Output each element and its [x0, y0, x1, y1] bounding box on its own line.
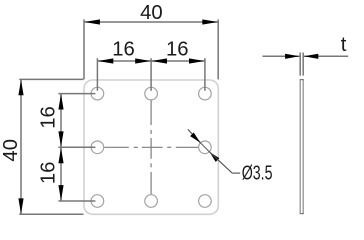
horizontal centerline — [104, 146, 198, 148]
dim top 16 right: left arrow — [152, 58, 168, 63]
dim t: right arrow — [304, 54, 319, 59]
side view plate: right face line — [302, 80, 304, 214]
dim top 16 left: left extension line — [96, 58, 98, 91]
dim top 16 left: left arrow — [98, 58, 114, 63]
dim t: left line — [263, 55, 300, 57]
hole bottom-right — [199, 195, 212, 208]
dim left 40: bottom extension line — [19, 213, 83, 215]
hole top-middle — [145, 87, 158, 100]
leader dia 3.5: upper arrow — [190, 133, 200, 143]
dim left 16/16: dimension line — [60, 94, 62, 201]
svg-text:Ø3.5: Ø3.5 — [242, 161, 273, 184]
dim t: right extension line — [302, 53, 304, 76]
dim t: left extension line — [299, 53, 301, 76]
dim top 40: left arrow — [84, 19, 100, 24]
svg-text:40: 40 — [0, 139, 22, 162]
side view plate: top edge — [300, 79, 304, 81]
dim left 16 bottom: bottom arrow — [58, 185, 63, 201]
dim top 40: right arrow — [202, 19, 218, 24]
leader dia 3.5: line through hole — [200, 143, 209, 152]
dim top 16: middle extension line — [150, 58, 152, 91]
svg-text:t: t — [341, 34, 347, 56]
side view plate: left face line — [299, 80, 301, 214]
side view plate: bottom edge — [300, 213, 304, 215]
dim top 16/16: dimension line — [97, 60, 204, 62]
dim top 40: left extension line — [83, 19, 85, 79]
dim left 16 top: top arrow — [58, 94, 63, 110]
dim top 40: right extension line — [217, 19, 219, 79]
hole bottom-middle — [145, 195, 158, 208]
svg-text:40: 40 — [140, 2, 163, 24]
vertical centerline — [150, 101, 152, 195]
hole bottom-left — [91, 195, 104, 208]
leader dia 3.5: horizontal tail — [232, 172, 240, 174]
dim top 16 left: right arrow — [135, 58, 151, 63]
dim top 16 right: right extension line — [204, 58, 206, 91]
dim left 40: top arrow — [18, 80, 23, 96]
hole middle-right — [199, 141, 212, 154]
dim left 40: bottom arrow — [18, 198, 23, 214]
hole middle-left — [91, 141, 104, 154]
svg-text:16: 16 — [112, 39, 135, 61]
hole top-right — [199, 87, 212, 100]
dim left 16 top: top extension line — [58, 93, 95, 95]
dim left 16 top: bottom arrow — [58, 131, 63, 147]
dim left 16 bottom: bottom extension line — [58, 200, 95, 202]
dim top 40: dimension line — [84, 21, 218, 23]
dim top 16 right: right arrow — [189, 58, 205, 63]
dim t: right line — [304, 55, 348, 57]
leader dia 3.5: upper diagonal line — [188, 129, 201, 142]
leader dia 3.5: lower arrow — [209, 152, 219, 162]
svg-text:16: 16 — [37, 106, 59, 129]
dim left 16: middle extension line — [58, 146, 95, 148]
plate outline front view — [84, 80, 218, 214]
dim left 40: dimension line — [20, 79, 22, 214]
svg-text:16: 16 — [166, 39, 189, 61]
dim left 16 bottom: top arrow — [58, 148, 63, 164]
svg-text:16: 16 — [37, 162, 59, 185]
dim left 40: top extension line — [19, 78, 83, 80]
dim t: left arrow — [285, 54, 300, 59]
leader dia 3.5: lower diagonal line — [209, 152, 232, 173]
hole top-left — [91, 87, 104, 100]
